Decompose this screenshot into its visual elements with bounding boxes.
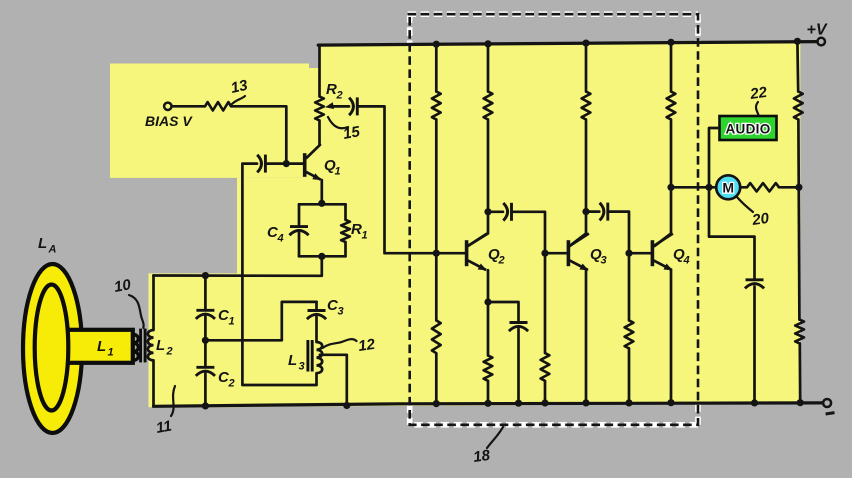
node Q2 collector cap [484,208,491,215]
dashed box 18 [408,14,699,425]
node Q4 base tap [625,250,632,257]
resistor Q2 collector load [484,92,493,120]
terminal BIAS V [164,103,171,110]
node C1-C2 junction [202,337,209,344]
wire Q4 base [629,252,651,255]
resistor Q2 emitter [484,356,493,381]
wire meter resistor right [779,186,799,189]
node Q3 bias ground [541,399,548,406]
svg-text:3: 3 [601,255,607,267]
node Q4 collector meter junction [667,184,674,191]
resistor R1 [341,220,350,242]
Q4 bias lower wire [628,348,631,403]
capacitor Q3-Q4 coupling [600,203,604,221]
svg-text:18: 18 [472,447,492,466]
svg-text:L: L [38,235,47,252]
wire coupling to Q3 base [512,212,545,253]
node audio meter junction [705,184,712,191]
svg-text:AUDIO: AUDIO [726,122,771,137]
transistor Q4 [651,240,655,266]
wire Q2 bypass branch [488,302,519,323]
svg-text:12: 12 [357,336,377,355]
inductor L1 winding [133,335,138,344]
inductor L3 core [306,340,309,372]
node audio cap ground [751,399,758,406]
wire wiper cap to Q2 base line [358,106,437,253]
Q3 bias lower wire [544,381,547,403]
C4R1 bottom wire [299,255,346,258]
wire L3 bottom to coupling cap [242,164,316,385]
node Q1 emitter top [318,200,325,207]
wire Q3 emitter down [585,270,588,403]
node rail right branch [794,38,801,45]
svg-text:L: L [97,338,106,355]
svg-text:2: 2 [228,378,235,390]
svg-text:L: L [288,352,297,369]
capacitor Q2 emitter bypass [510,321,528,324]
node Q3 collector cap [582,208,589,215]
input coupling capacitor [257,155,261,173]
resistor meter series [747,183,779,191]
wire Q4 collector [655,187,671,246]
Q4 bias resistor upper wire [628,253,631,320]
wire tank top rail [154,256,322,275]
Q4 load lower wire [670,120,673,188]
capacitor C2 top wire [204,340,207,367]
right branch upper wire [796,41,799,91]
wire C1C2 junction to C3 [205,302,316,340]
leader 15 [328,117,348,128]
capacitor C3 [308,309,326,312]
meter M 20 [716,175,740,199]
node rail Q4 load [667,39,674,46]
capacitor C1 [196,309,214,312]
terminal +V [817,38,825,46]
svg-text:1: 1 [362,230,368,242]
node right branch ground [797,399,804,406]
Q3 bias resistor upper wire [544,253,547,353]
svg-text:1: 1 [108,347,114,359]
wire Q2 emitter down [487,270,490,302]
leader 13 [231,96,245,105]
Q2 emitter resistor lower wire [487,381,490,404]
wire meter to resistor [740,186,747,189]
svg-text:11: 11 [155,417,173,436]
wire meter line left [671,186,716,189]
resistor Q2 bias lower [432,320,441,353]
wire Q2 base [436,252,465,255]
svg-text:4: 4 [683,255,690,267]
capacitor C1 bottom wire [204,317,207,341]
node Q1 base junction [283,160,290,167]
inductor L3 winding [317,342,323,350]
C4 branch upper wire [298,204,301,226]
svg-text:R: R [351,221,362,238]
resistor 13 [205,102,231,110]
svg-text:1: 1 [335,166,341,178]
capacitor audio output [746,278,764,281]
leader 11 [171,386,175,416]
potentiometer R2 [315,97,324,121]
leader 10 [129,295,144,328]
capacitor Q3-Q4 coupling wire left [586,210,599,213]
wire coupling cap to Q1 base [267,162,303,165]
transistor Q3 [567,240,571,266]
Q2 bypass lower wire [517,329,520,403]
wire Q1 emitter down [320,180,323,203]
+V rail [318,42,817,46]
resistor right upper [794,92,803,120]
wire Q4 emitter down [670,270,673,403]
node Q4 bias ground [625,399,632,406]
inductor L2 winding [148,330,154,338]
node rail Q2 load [484,40,491,47]
C4R1 top wire [299,203,346,206]
resistor right lower [795,320,804,344]
resistor Q3 bias [541,353,550,381]
node Q2 base tap [433,250,440,257]
label minus [826,413,835,414]
ground rail [154,403,823,406]
wire Q3 base [545,252,567,255]
dashed box 18 white halo (gray areas only) [408,11,699,17]
svg-text:3: 3 [299,361,305,373]
wire tank left side lower [152,360,155,406]
node C2 bottom [202,402,209,409]
wire audio line [709,128,755,280]
wire Q2 collector [468,212,488,246]
yellow highlight bias box [110,64,309,178]
transistor Q1 [303,153,307,177]
resistor Q3 collector load [582,92,591,120]
capacitor C2 [196,366,214,369]
loop antenna stem / coil L1 body [53,330,133,363]
svg-text:A: A [48,244,57,256]
transformer core 10 [139,329,142,363]
yellow highlight main block [237,42,800,407]
leader 18 [487,427,503,448]
wire Q1 collector to R2 [318,121,321,146]
wire R2 to +V rail [318,45,321,96]
svg-text:2: 2 [336,90,343,102]
capacitor Q2-Q3 coupling wire left [488,210,503,213]
resistor Q4 collector load [667,92,676,120]
capacitor C3 top wire [315,302,318,311]
AUDIO box 22 [720,116,777,140]
resistor R1 upper wire [344,204,347,220]
right branch mid wire [798,120,799,320]
node rail Q2 divider [433,41,440,48]
node Q2 emitter [484,298,491,305]
svg-text:2: 2 [166,346,173,358]
svg-text:M: M [722,180,734,196]
svg-text:+V: +V [807,22,828,39]
capacitor R2 wiper coupling [349,98,353,116]
leader 20 [737,197,754,213]
svg-text:R: R [326,81,337,98]
Q4 load upper wire [670,42,673,91]
right branch lower wire [798,343,801,402]
loop antenna LA outer ring [23,264,82,433]
svg-text:L: L [156,337,165,354]
node Q2 bypass ground [515,400,522,407]
wire tank left side [152,276,155,331]
capacitor C3 bottom wire [315,317,318,342]
svg-text:1: 1 [229,316,235,328]
svg-text:BIAS V: BIAS V [145,113,193,129]
node Q4 emitter ground [667,399,674,406]
node right branch meter [795,184,802,191]
node Q1 emitter bottom [318,253,325,260]
capacitor Q2-Q3 coupling [503,203,507,221]
transistor Q2 [465,240,469,266]
loop antenna LA inner ring [35,285,69,411]
Q3 load upper wire [585,43,588,91]
wire bias terminal to resistor [172,105,205,108]
svg-text:3: 3 [338,306,344,318]
svg-text:4: 4 [277,233,284,245]
audio cap lower wire [753,287,756,403]
capacitor C1 branch top wire [204,276,207,311]
node Q2 divider ground [433,400,440,407]
node C1 top [202,272,209,279]
node Q2 emitter ground [484,400,491,407]
wire resistor 13 to base junction [231,106,286,163]
Q2 load lower wire [487,120,490,212]
C4 branch lower wire [298,233,301,256]
Q2 divider upper wire [435,44,438,91]
node Q3 emitter ground [582,399,589,406]
yellow highlight tank box [149,273,239,407]
Q3 load lower wire [585,120,588,212]
resistor Q2 bias upper [432,92,441,120]
resistor R1 lower wire [344,242,347,256]
Q2 load upper wire [487,44,490,92]
svg-text:2: 2 [498,255,505,267]
terminal minus [823,399,831,407]
R2 wiper arrow [331,105,349,108]
svg-text:22: 22 [748,84,769,103]
node L3 tap ground [343,402,350,409]
node Q3 base tap [541,250,548,257]
Q2 divider mid wire [435,120,438,321]
Q2 emitter resistor upper wire [487,302,490,356]
resistor Q4 bias [625,320,634,348]
leader 22 [756,102,758,115]
wire L3 tap to ground [320,355,347,406]
leader 12 [323,339,357,348]
wire coupling to Q4 base [608,212,629,254]
capacitor C2 bottom wire [204,374,207,406]
node rail Q3 load [582,40,589,47]
Q2 divider lower wire [435,353,438,403]
capacitor C4 [290,225,308,228]
wire Q3 collector [570,212,586,246]
